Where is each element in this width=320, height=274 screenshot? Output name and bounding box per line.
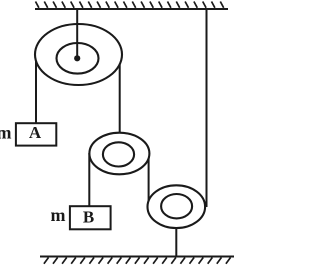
svg-text:m: m [51,205,66,225]
svg-text:m: m [0,123,12,143]
svg-text:B: B [83,207,94,226]
svg-text:A: A [29,123,42,142]
